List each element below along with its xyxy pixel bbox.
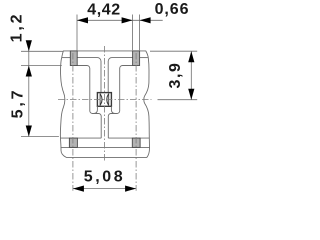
- bottom left divider: [68, 138, 70, 147]
- square lower stub right: [111, 106, 115, 113]
- top inner line right of right pad: [140, 57, 148, 59]
- extension line 3,9 bottom: [158, 99, 198, 101]
- center square right arc: [107, 94, 109, 105]
- dimension line top: [77, 19, 163, 21]
- centerline horizontal main: [58, 99, 152, 101]
- bottom band upper line right: [108, 137, 149, 139]
- left inner profile: [77, 66, 101, 139]
- arrow 1,2 top: [26, 40, 32, 51]
- extension line 0,66 right: [139, 15, 141, 51]
- center square left arc: [100, 94, 102, 105]
- arrow 3,9 top: [188, 51, 194, 62]
- dimension line right vertical: [190, 51, 192, 99]
- top inner line pad to center column left: [77, 58, 101, 93]
- bottom right pad: [132, 138, 140, 147]
- dimension line bottom: [73, 188, 136, 190]
- bottom right divider: [139, 138, 141, 147]
- bottom band upper line left: [61, 137, 102, 139]
- extension line 3,9 top: [150, 50, 197, 52]
- top inner line pad to center column right: [108, 58, 132, 93]
- arrow 4,42 left: [77, 17, 88, 23]
- arrow 5,7 bottom: [26, 126, 32, 137]
- extension line 1,2 bottom: [21, 65, 62, 67]
- bottom band lower line: [61, 146, 151, 148]
- svg-text:5,08: 5,08: [84, 169, 126, 186]
- svg-text:5,7: 5,7: [10, 88, 27, 119]
- bottom left pad: [69, 138, 77, 147]
- center square inner vertical left: [99, 93, 101, 105]
- arrow 5,08 right: [125, 186, 136, 192]
- extension line 4,42 left: [76, 15, 78, 51]
- svg-text:4,42: 4,42: [87, 2, 121, 19]
- top right pad: [133, 51, 140, 66]
- svg-text:0,66: 0,66: [155, 1, 190, 18]
- svg-text:1,2: 1,2: [9, 12, 26, 43]
- top left pad: [70, 51, 77, 66]
- centerline right pad: [135, 53, 137, 191]
- dimension line left vertical: [28, 41, 30, 137]
- centerline left pad: [72, 53, 74, 191]
- center square inner vertical right: [108, 93, 110, 105]
- arrow 0,66: [140, 17, 151, 23]
- square lower stub left: [94, 106, 98, 113]
- svg-text:3,9: 3,9: [167, 61, 184, 88]
- centerline vertical main: [104, 46, 106, 162]
- arrow 4,42 right: [122, 17, 133, 23]
- arrow 1,2 bottom / 5,7 top: [26, 66, 32, 77]
- right inner profile: [108, 66, 132, 139]
- arrow 3,9 bottom: [188, 89, 194, 100]
- center square: [97, 93, 111, 107]
- arrow 5,08 left: [73, 186, 84, 192]
- body outline: [60, 51, 149, 157]
- extension line 4,42 right / 0,66 left: [132, 15, 134, 51]
- extension line 5,7 bottom: [21, 136, 59, 138]
- top inner line left of left pad: [62, 57, 71, 59]
- extension line 1,2 top: [21, 50, 63, 52]
